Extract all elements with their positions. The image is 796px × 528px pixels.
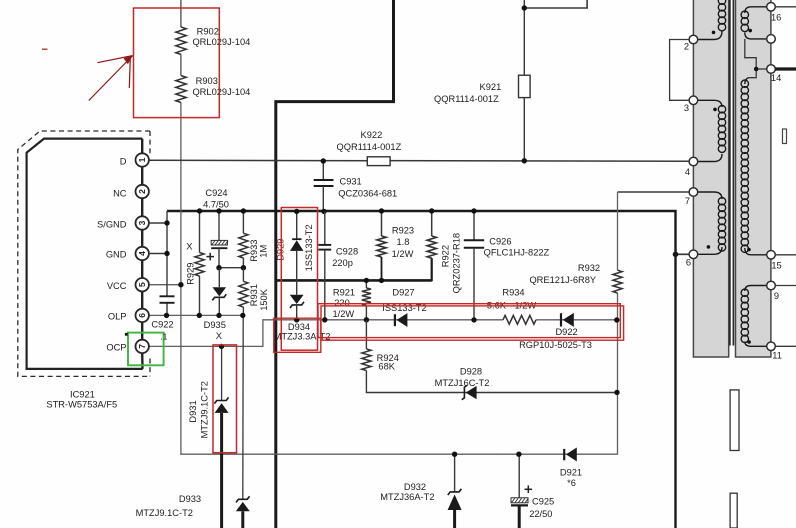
svg-text:R931: R931 (249, 284, 259, 306)
node C924 bus (216, 208, 221, 213)
IC921 pin chain (141, 139, 144, 369)
pin label OCP (106, 343, 126, 353)
pin label 6 (686, 258, 691, 268)
svg-text:R921: R921 (333, 288, 355, 298)
diode D935 (zener) (212, 268, 226, 316)
wire OLP row (149, 314, 244, 316)
label ratio mark (160, 331, 167, 341)
svg-text:4.7/50: 4.7/50 (203, 199, 229, 209)
annotation red box R902/R903 (134, 8, 220, 118)
svg-text:150K: 150K (259, 288, 269, 311)
phase dot winding-2 (712, 31, 716, 35)
label D928 (435, 366, 490, 388)
svg-text:220p: 220p (332, 258, 353, 268)
svg-text:C928: C928 (336, 247, 358, 257)
svg-text:D929: D929 (275, 239, 285, 261)
svg-text:C931: C931 (340, 177, 362, 187)
node D935-OLP (216, 313, 221, 318)
transformer pin 3 (689, 96, 698, 105)
label D929 (275, 224, 314, 271)
node VCC pin5 (178, 282, 183, 287)
svg-text:MTZJ36A-T2: MTZJ36A-T2 (380, 492, 434, 502)
svg-text:4: 4 (685, 167, 690, 177)
transformer pin 15 (767, 251, 776, 260)
wire pin11 to edge (775, 345, 796, 347)
pin label S/GND (97, 220, 127, 230)
svg-text:OLP: OLP (108, 312, 127, 322)
label C924 plus (206, 253, 214, 261)
transformer core (730, 0, 734, 346)
node R921 thick (364, 278, 369, 283)
node C931 top (321, 158, 326, 163)
svg-text:6: 6 (686, 258, 691, 268)
svg-text:QFLC1HJ-822Z: QFLC1HJ-822Z (484, 247, 550, 257)
svg-text:.1: .1 (160, 331, 167, 341)
svg-text:D928: D928 (460, 366, 482, 376)
node R929-OLP (197, 313, 202, 318)
svg-text:D927: D927 (392, 287, 414, 297)
label C925 (529, 496, 554, 518)
svg-text:GND: GND (106, 250, 127, 260)
node D929 bus (294, 209, 299, 214)
node D932 rail (452, 452, 457, 457)
pin label 2 (684, 42, 689, 52)
label R923 (392, 226, 414, 259)
svg-text:4: 4 (137, 251, 147, 256)
svg-text:QQR1114-001Z: QQR1114-001Z (434, 94, 499, 104)
label D932 (380, 482, 434, 502)
label D934 (274, 322, 331, 341)
node pin3 strap (164, 220, 169, 225)
node R923 thick (379, 278, 384, 283)
transformer pin 11 (767, 342, 776, 351)
svg-text:R934: R934 (502, 287, 524, 297)
wire pin15 to edge (775, 254, 796, 256)
svg-text:16: 16 (771, 12, 781, 22)
capacitor C926 (464, 211, 484, 320)
svg-text:QRZ0237-R18: QRZ0237-R18 (452, 233, 462, 293)
transformer T921 primary-side body (693, 0, 728, 357)
wire R931 to D933 (242, 315, 244, 498)
label R929 (185, 241, 195, 284)
svg-text:C925: C925 (532, 496, 554, 506)
svg-text:2: 2 (684, 42, 689, 52)
svg-text:14: 14 (771, 73, 781, 83)
transformer T921 secondary-side body (736, 0, 771, 357)
node C928-OCP (322, 317, 327, 322)
svg-text:9: 9 (774, 291, 779, 301)
label C924 (203, 188, 229, 209)
transformer pin 7 (689, 188, 698, 197)
diode D927 (395, 313, 408, 327)
label R933 (249, 240, 269, 262)
resistor R929 (195, 211, 204, 315)
label D933 (136, 494, 201, 518)
pin label 14 (771, 73, 781, 83)
resistor R921 (362, 280, 371, 319)
wire S/GND-GND strap (149, 211, 167, 315)
pin label 11 (772, 350, 782, 360)
svg-text:QCZ0364-681: QCZ0364-681 (338, 189, 397, 199)
label D922 (519, 327, 592, 350)
IC921 pin 2 circle (136, 185, 149, 198)
svg-text:QRL029J-104: QRL029J-104 (192, 87, 250, 97)
pin label 9 (774, 291, 779, 301)
wire VCC riser x181 lower (181, 103, 503, 455)
wire bottom rail y454 right (503, 453, 617, 455)
pin label NC (113, 189, 127, 199)
annotation red box D931 (213, 345, 237, 453)
node R929 bus (197, 208, 202, 213)
svg-text:6: 6 (137, 313, 147, 318)
label D931 (188, 381, 209, 438)
transformer pin 16 (767, 3, 776, 12)
wire K921 branch (523, 0, 525, 161)
diode D929 (290, 211, 303, 294)
phase dot winding-3-4 (713, 108, 717, 112)
IC921 pin 7 circle (136, 340, 149, 353)
node D934-OCP (294, 317, 299, 322)
svg-text:RGP10J-5025-T3: RGP10J-5025-T3 (519, 340, 592, 350)
pin label 3 (684, 103, 689, 113)
winding pin2 (primary top) (698, 0, 726, 40)
svg-text:*6: *6 (567, 478, 576, 488)
pin label 16 (771, 12, 781, 22)
diode D932 (zener) (448, 454, 462, 528)
resistor R923 (377, 211, 386, 280)
IC921 pin 4 circle (136, 247, 149, 260)
node R933 bus (241, 208, 246, 213)
svg-text:68K: 68K (378, 362, 395, 372)
svg-text:S/GND: S/GND (97, 220, 127, 230)
phase dot winding-16 (748, 29, 752, 33)
pin label VCC (107, 281, 127, 291)
diode D928 (zener) (462, 385, 477, 400)
resistor R922 (427, 211, 436, 281)
svg-text:1/2W: 1/2W (392, 249, 414, 259)
svg-text:3: 3 (684, 103, 689, 113)
pin label 4 (685, 167, 690, 177)
wire OCP branch (149, 320, 617, 347)
svg-text:2: 2 (137, 189, 147, 194)
wire right riser x617 upper (617, 192, 619, 270)
transformer pin 14 (767, 65, 776, 74)
svg-text:R929: R929 (185, 263, 195, 285)
connector stub right edge (783, 129, 787, 144)
node R933-R931 (241, 265, 246, 270)
svg-text:QQR1114-001Z: QQR1114-001Z (337, 142, 402, 152)
phase dot winding-7-6 (707, 245, 711, 249)
label C931 (338, 177, 397, 199)
label C926 (484, 237, 550, 258)
wire pin14 inter-winding link (745, 39, 767, 78)
diode D922 (561, 313, 574, 327)
transformer pin 6 (689, 250, 698, 259)
svg-text:D935: D935 (204, 320, 226, 330)
winding pins9-11 (741, 286, 767, 347)
IC921 pin 5 circle (136, 278, 149, 291)
transformer pin 9 (767, 281, 776, 290)
svg-text:OCP: OCP (106, 343, 126, 353)
phase dot winding-9-11 (747, 340, 751, 344)
svg-text:D931: D931 (188, 400, 198, 422)
wire VCC riser x181 mid (180, 54, 182, 75)
node K921 drain row (522, 158, 527, 163)
svg-text:K921: K921 (480, 82, 502, 92)
svg-text:MTZJ9.1C-T2: MTZJ9.1C-T2 (200, 381, 210, 438)
svg-text:1/2W: 1/2W (332, 309, 354, 319)
label R931 (249, 284, 269, 311)
label R902 (192, 27, 250, 47)
wire VCC stub pin5 (149, 284, 181, 286)
pin label OLP (108, 312, 127, 322)
wire drain row (pin1 to transformer pin4) (149, 159, 690, 162)
capacitor C925 (electrolytic) (511, 454, 528, 528)
annotation square mark (125, 333, 128, 336)
svg-text:R903: R903 (196, 76, 218, 86)
node R922 bus (429, 208, 434, 213)
svg-text:NC: NC (113, 189, 127, 199)
node top junction (522, 5, 527, 10)
fuse K921 (519, 75, 531, 97)
svg-text:QRL029J-104: QRL029J-104 (192, 37, 250, 47)
winding pin16 (secondary top) (741, 7, 767, 39)
wire transformer pin7 row (618, 191, 690, 193)
transformer pin nc (767, 35, 776, 44)
resistor R931 (239, 268, 248, 316)
node R921-OCP (364, 317, 369, 322)
svg-text:1.8: 1.8 (397, 237, 410, 247)
resistor R924 (362, 320, 617, 393)
label C922 (151, 320, 173, 330)
label C928 (332, 247, 358, 268)
annotation red box OCP row (318, 304, 624, 340)
label R903 (192, 76, 250, 97)
svg-text:5: 5 (137, 282, 147, 287)
S/GND bus (167, 211, 676, 528)
pin label 7 (685, 196, 690, 206)
wire mid junction row (219, 267, 243, 269)
label D935 (204, 320, 226, 341)
wire pins2-3 strap (670, 40, 690, 101)
svg-text:C924: C924 (205, 188, 227, 198)
thick supply line top-left L (276, 0, 394, 528)
svg-text:IC921: IC921 (70, 389, 95, 399)
transformer pin 4 (689, 157, 698, 166)
label R934 (487, 287, 537, 310)
node C926-OCP (471, 317, 476, 322)
label C925 plus (525, 486, 533, 494)
IC921 solid outline (27, 139, 143, 369)
pin label 15 (771, 261, 781, 271)
winding pins7-6 (698, 192, 726, 254)
capacitor C928 (318, 211, 331, 319)
svg-text:22/50: 22/50 (529, 509, 552, 519)
svg-text:1M: 1M (259, 245, 269, 258)
svg-text:R923: R923 (392, 226, 414, 236)
label R922 (441, 233, 462, 293)
wire transformer pin6 stub (676, 253, 690, 255)
svg-text:STR-W5753A/F5: STR-W5753A/F5 (46, 400, 117, 410)
capacitor C931 (314, 161, 334, 211)
node C931 bus (321, 209, 326, 214)
svg-text:K922: K922 (361, 130, 383, 140)
svg-text:X: X (216, 331, 222, 341)
svg-text:D921: D921 (560, 467, 582, 477)
svg-text:R922: R922 (441, 245, 451, 267)
svg-text:C922: C922 (151, 320, 173, 330)
label D921 (560, 467, 582, 488)
wire pin9 to edge (775, 285, 796, 287)
pin label GND (106, 250, 127, 260)
wire right riser x617 lower (617, 293, 619, 455)
node C925 rail (516, 452, 521, 457)
diode D931 (zener) (214, 346, 228, 528)
annotation green box OCP pin (128, 333, 164, 366)
winding pins14-15 (long secondary) (741, 78, 767, 255)
diode D933 (zener) (236, 496, 250, 528)
svg-text:MTZJ16C-T2: MTZJ16C-T2 (435, 378, 490, 388)
resistor R934 (503, 315, 536, 324)
pin label D (120, 157, 127, 167)
svg-text:VCC: VCC (107, 281, 127, 291)
label R921 (332, 288, 355, 319)
IC921 pin 1 circle (136, 153, 149, 166)
IC921 pin 3 circle (136, 216, 149, 229)
transformer pin 2 (689, 35, 698, 44)
svg-text:15: 15 (771, 261, 781, 271)
IC921 pin 6 circle (136, 309, 149, 322)
node pin14 junction (754, 67, 759, 72)
diode D934 (zener) (290, 295, 304, 320)
svg-text:3: 3 (137, 220, 147, 225)
node D928-x617 (614, 390, 619, 395)
winding pins3-4 (698, 100, 726, 161)
svg-text:D933: D933 (179, 494, 201, 504)
node D922-x617 (614, 317, 619, 322)
svg-text:R902: R902 (197, 27, 219, 37)
capacitor C924 (electrolytic) (211, 211, 228, 268)
svg-text:C926: C926 (489, 237, 511, 247)
svg-text:QRE121J-6R8Y: QRE121J-6R8Y (529, 275, 596, 285)
label R932 (529, 263, 600, 285)
resistor R932 (613, 270, 622, 293)
annotation arrow (89, 56, 133, 101)
node R923 bus (379, 208, 384, 213)
svg-text:11: 11 (772, 350, 782, 360)
annotation red box D929/D934 (274, 208, 321, 353)
thick line top-right stub (524, 0, 587, 8)
svg-text:1SS133-T2: 1SS133-T2 (304, 224, 314, 271)
IC921 dashed outline (18, 131, 150, 376)
svg-text:X: X (186, 241, 192, 251)
svg-text:D932: D932 (404, 482, 426, 492)
resistor R903 (176, 76, 186, 103)
thick source line y280 (276, 279, 432, 282)
phase dot winding-14-15 (747, 248, 751, 252)
resistor R902 (176, 27, 186, 54)
wire pin14 to edge (thick) (775, 67, 796, 70)
fuse K922 (367, 157, 390, 166)
wire VCC riser x181 upper (180, 0, 182, 27)
svg-text:D922: D922 (555, 327, 577, 337)
node pin6 junction (673, 252, 679, 258)
node D931-OCP (219, 344, 224, 349)
label K922 (337, 130, 402, 152)
svg-text:1: 1 (137, 157, 147, 162)
node C924-D935 (216, 265, 221, 270)
svg-text:MTZJ9.1C-T2: MTZJ9.1C-T2 (136, 508, 193, 518)
node C922-OLP (164, 313, 169, 318)
IC921 label (46, 389, 117, 409)
node C926 bus (471, 208, 476, 213)
capacitor C922 (160, 296, 175, 303)
svg-text:R932: R932 (578, 263, 600, 273)
node R931-OLP (240, 313, 245, 318)
connector bar upper (730, 390, 739, 451)
label D927 (382, 287, 426, 313)
node pin4 strap (164, 251, 169, 256)
resistor R933 (239, 211, 248, 268)
label R924 (377, 353, 399, 371)
svg-text:D: D (120, 157, 127, 167)
svg-text:7: 7 (137, 344, 147, 349)
svg-text:R933: R933 (249, 240, 259, 262)
label K921 (434, 82, 501, 104)
wire pin16 to edge (775, 6, 796, 8)
annotation red dash (42, 48, 48, 50)
diode D921 (564, 448, 577, 462)
svg-text:7: 7 (685, 196, 690, 206)
connector bar lower (730, 493, 737, 528)
